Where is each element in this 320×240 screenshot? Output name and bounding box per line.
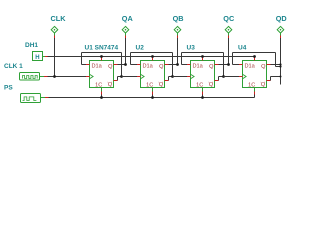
svg-text:Q: Q	[159, 82, 164, 88]
wire DH1/D1 riser	[81, 53, 83, 65]
svg-text:Q: Q	[108, 82, 113, 88]
junction CLR U2	[151, 96, 154, 99]
wire feedback dive U4	[276, 53, 281, 67]
svg-text:H: H	[35, 55, 39, 61]
U4 PRE pin stub	[254, 57, 256, 61]
wire QB column	[177, 38, 179, 65]
port QD diamond	[277, 26, 284, 33]
PS pin	[41, 97, 49, 99]
junction Qbar4/QD column	[280, 76, 282, 78]
junction PRE U3	[201, 55, 204, 58]
wire feedback bus segment over U1	[82, 52, 122, 54]
U2 PRE pin stub	[152, 57, 154, 61]
wire QA column	[125, 38, 127, 65]
junction feedback/clock U4	[222, 75, 225, 78]
wire high bus DH1 to PRE pins	[48, 56, 255, 58]
wire clock to U1	[48, 76, 90, 78]
svg-text:CLK 1: CLK 1	[4, 63, 23, 70]
wire D riser U4	[232, 53, 234, 65]
flip-flop U3 body	[191, 61, 215, 88]
wire feedback drop U3	[223, 53, 225, 77]
wire clock into U4	[224, 76, 243, 78]
svg-text:QA: QA	[122, 14, 134, 23]
wire feedback bus segment over U4	[233, 52, 276, 54]
wire clock into U3	[173, 76, 191, 78]
junction dive/QD column	[279, 65, 281, 67]
svg-text:QD: QD	[276, 14, 287, 23]
wire clock into U2	[122, 76, 141, 78]
flip-flop U2 body	[141, 61, 165, 88]
U3 CLR pin stub	[202, 88, 204, 98]
U3 PRE pin stub	[202, 57, 204, 61]
svg-text:D1a: D1a	[143, 64, 154, 70]
wire D input U2	[131, 64, 141, 66]
U4 CLR pin stub	[254, 88, 256, 98]
CLK 1 pin	[40, 76, 48, 78]
junction feedback/clock U2	[120, 75, 123, 78]
wire Qbar1 hook	[114, 77, 122, 81]
svg-text:D1a: D1a	[92, 64, 103, 70]
wire CLK column	[54, 38, 56, 77]
U1 CLR pin stub	[101, 88, 103, 98]
junction PRE U4	[253, 55, 256, 58]
wire feedback bus segment over U2	[131, 52, 173, 54]
wire feedback drop U1	[121, 53, 123, 77]
port QC diamond	[225, 26, 232, 33]
svg-text:DH1: DH1	[25, 42, 38, 49]
wire Q2 output to port	[165, 64, 178, 66]
flip-flop U1 body	[90, 61, 114, 88]
junction Q2/port column	[176, 63, 179, 66]
U1 PRE pin stub	[101, 57, 103, 61]
port QB pin stub	[177, 33, 179, 39]
wire Qbar4 hook	[267, 77, 281, 81]
wire feedback drop U2	[172, 53, 174, 77]
svg-text:Q: Q	[261, 82, 266, 88]
port QD pin stub	[280, 33, 282, 39]
svg-text:QC: QC	[223, 14, 235, 23]
svg-text:Q: Q	[209, 64, 214, 70]
svg-text:D1a: D1a	[193, 64, 204, 70]
port QA diamond	[122, 26, 129, 33]
wire Q3 output to port	[215, 64, 229, 66]
wire PS clear bus	[49, 97, 255, 99]
port QC pin stub	[228, 33, 230, 39]
wire D input U1	[82, 64, 90, 66]
wire QD column	[280, 38, 282, 85]
svg-text:U1 SN7474: U1 SN7474	[85, 45, 119, 52]
wire Qbar3 hook	[215, 77, 224, 81]
svg-text:D1a: D1a	[245, 64, 256, 70]
port CLK pin stub	[54, 33, 56, 39]
pulse source PS	[21, 94, 41, 103]
wire D riser U2	[130, 53, 132, 65]
wire D input U4	[233, 64, 243, 66]
junction CLK/CLK1	[53, 75, 56, 78]
junction feedback/clock U3	[171, 75, 174, 78]
svg-text:QB: QB	[173, 14, 184, 23]
svg-text:U3: U3	[187, 45, 196, 52]
wire Qbar2 hook	[165, 77, 173, 81]
logic-high source DH1	[33, 52, 43, 61]
clock source CLK 1	[20, 73, 40, 81]
port CLK diamond	[51, 26, 58, 33]
svg-text:Q: Q	[209, 82, 214, 88]
junction PRE U2	[151, 55, 154, 58]
flip-flop U4 body	[243, 61, 267, 88]
svg-text:U2: U2	[136, 45, 145, 52]
svg-text:Q: Q	[261, 64, 266, 70]
junction CLR U1	[100, 96, 103, 99]
junction PRE U1	[100, 55, 103, 58]
wire Q1 output to port	[114, 64, 126, 66]
svg-text:PS: PS	[4, 85, 13, 92]
junction Q3/port column	[227, 63, 230, 66]
svg-text:U4: U4	[238, 45, 247, 52]
wire feedback bus segment over U3	[182, 52, 224, 54]
wire Q4 output to port	[267, 64, 281, 66]
wire QC column	[228, 38, 230, 65]
svg-text:Q: Q	[159, 64, 164, 70]
svg-text:Q: Q	[108, 64, 113, 70]
junction Q4/QD column	[279, 63, 281, 65]
wire D riser U3	[181, 53, 183, 65]
port QB diamond	[174, 26, 181, 33]
wire PS bus corner to U4	[254, 94, 256, 98]
U2 CLR pin stub	[152, 88, 154, 98]
svg-text:CLK: CLK	[51, 14, 67, 23]
DH1 pin	[43, 56, 48, 58]
wire D input U3	[182, 64, 191, 66]
port QA pin stub	[125, 33, 127, 39]
junction Q1/port column	[124, 63, 127, 66]
junction CLR U3	[201, 96, 204, 99]
